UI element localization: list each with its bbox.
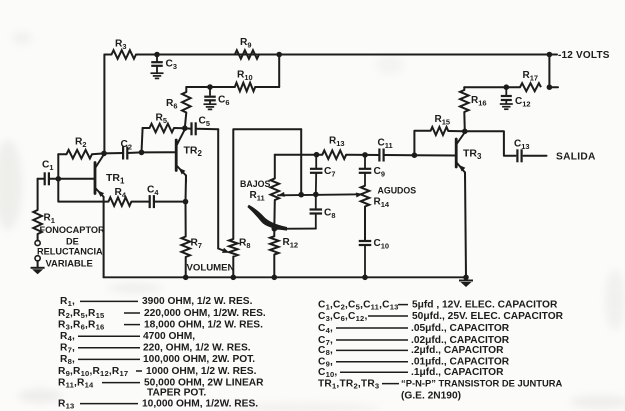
terminal circle lower (35, 256, 40, 261)
label R4 (115, 187, 127, 200)
parts list C7 (318, 335, 510, 347)
node: C12 junction (504, 84, 510, 90)
wire: C1 to TR1 base (49, 178, 95, 180)
node: input junction (56, 176, 62, 182)
wire: R2 right lead (92, 152, 104, 155)
wire: R5 left lead (143, 127, 150, 129)
svg-text:.2μfd., CAPACITOR: .2μfd., CAPACITOR (411, 345, 504, 356)
capacitor C4 (150, 195, 154, 208)
svg-text:220,000 OHM, 1/2W. RES.: 220,000 OHM, 1/2W. RES. (144, 308, 266, 319)
label TR1 (106, 172, 125, 186)
resistor R14 treble pot (361, 186, 370, 207)
node: wiper/drop junction (298, 192, 304, 198)
wire: R15 riser (414, 131, 430, 155)
resistor R1 (33, 210, 42, 234)
label BAJOS (240, 179, 270, 189)
svg-text:FONOCAPTOR: FONOCAPTOR (40, 225, 106, 235)
node: R13/C7 junction (314, 152, 320, 158)
wire: C4 to TR2 emitter node (154, 201, 185, 203)
wire: input drop to R1 (37, 179, 39, 210)
label SALIDA (556, 151, 596, 162)
label R7 (191, 238, 202, 251)
svg-text:50μfd., 25V. ELEC. CAPACITOR: 50μfd., 25V. ELEC. CAPACITOR (412, 311, 564, 322)
wire: terminal to ground (37, 261, 39, 268)
svg-text:R2,R5,R15: R2,R5,R15 (58, 308, 105, 320)
label VARIABLE (46, 258, 93, 269)
resistor R16 with leads (460, 87, 469, 131)
resistor R13 (322, 150, 346, 159)
wire: R11 bottom lead (273, 200, 276, 229)
parts list C1 C2 C5 C11 C13 (318, 299, 558, 311)
node: TR2 emitter / R7 junction (183, 199, 189, 205)
svg-text:AGUDOS: AGUDOS (378, 185, 417, 195)
wiper arrow R14 (356, 192, 363, 197)
wire: R6 top lead (186, 86, 210, 88)
wire: R15 right lead (448, 130, 465, 132)
label R3 (115, 39, 126, 52)
svg-text:BAJOS: BAJOS (240, 179, 270, 189)
parts list R7 (60, 343, 251, 355)
parts list R4 (60, 331, 195, 343)
parts list C3 C6 C12 (318, 311, 564, 323)
ground fonocaptor (31, 268, 45, 275)
wire: R7 bottom lead (185, 257, 187, 277)
label R14 (374, 197, 390, 210)
wire: bass box vertical drop (300, 129, 302, 194)
ground at rail end (459, 281, 473, 288)
resistor R11 bass pot (271, 178, 280, 200)
label R2 (75, 137, 86, 150)
svg-text:R9,R10,R12,R17: R9,R10,R12,R17 (58, 366, 128, 378)
resistor R15 (431, 127, 449, 135)
capacitor C5 with leads (185, 122, 218, 135)
label C5 (199, 116, 210, 129)
parts list TR1 TR2 TR3 (318, 377, 563, 390)
wire: top rail R3 to C3 node (136, 54, 157, 56)
wire: C1 left lead (38, 178, 45, 180)
resistor R4 (108, 197, 131, 206)
capacitor C1 (45, 172, 49, 185)
resistor R3 (112, 50, 137, 59)
parts list C10 (318, 367, 504, 379)
wire: R11 top lead (274, 155, 276, 179)
wire: TR3 emitter drop (465, 173, 466, 278)
transistor TR2 (176, 130, 186, 183)
wire: R2 left riser (57, 154, 59, 179)
resistor R8 volume pot (229, 239, 238, 257)
wire: emitter to R4 (104, 201, 109, 203)
node: TR2 collector junction (182, 125, 188, 131)
label C1 (42, 160, 53, 173)
wire: ground rail (104, 276, 466, 278)
wire: R13 left lead (317, 154, 323, 156)
svg-text:R7,: R7, (60, 343, 75, 355)
svg-text:TR1,TR2,TR3: TR1,TR2,TR3 (318, 378, 379, 390)
wire: R8 top riser (233, 129, 301, 239)
svg-text:C3,C6,C12,: C3,C6,C12, (318, 311, 368, 323)
wire: TR2 emitter drop (185, 176, 188, 202)
svg-text:VARIABLE: VARIABLE (46, 258, 93, 269)
label C2 (121, 139, 132, 152)
svg-text:.02μfd., CAPACITOR: .02μfd., CAPACITOR (411, 335, 510, 346)
resistor R10 (235, 83, 255, 92)
wire: TR2 base lead (142, 151, 177, 153)
parts list R9 R10 R12 R17 (58, 366, 257, 378)
wire: C8 bottom link (274, 228, 316, 230)
wire: R5 left riser (142, 128, 143, 152)
label R15 (435, 114, 451, 127)
resistor R9 (235, 50, 259, 59)
svg-text:5μfd , 12V. ELEC. CAPACITOR: 5μfd , 12V. ELEC. CAPACITOR (412, 299, 558, 310)
wire: C6 node to R10 (210, 86, 235, 88)
parts list C9 (318, 357, 510, 369)
node: R9/R10 junction (276, 52, 282, 58)
node: R17 right junction (547, 84, 558, 90)
label C12 (515, 96, 531, 109)
node: wiper/C7 junction (313, 192, 319, 198)
wire: R11 top to R13 node (275, 154, 317, 156)
resistor R6 with leads (182, 87, 191, 128)
svg-text:1000 OHM, 1/2 W. RES.: 1000 OHM, 1/2 W. RES. (146, 366, 257, 377)
capacitor C11 with leads (365, 149, 414, 162)
label R12 (283, 237, 299, 250)
capacitor C9 (359, 155, 372, 186)
wire: R13 to C9 node (346, 154, 365, 156)
node: TR2 base junction (139, 150, 145, 156)
parts list R1 (60, 296, 253, 308)
label R16 (471, 95, 487, 108)
svg-text:3900 OHM, 1/2 W. RES.: 3900 OHM, 1/2 W. RES. (142, 296, 253, 307)
svg-text:R1,: R1, (60, 296, 75, 308)
svg-text:(G.E. 2N190): (G.E. 2N190) (401, 390, 461, 401)
svg-text:R13: R13 (58, 398, 74, 410)
label R6 (166, 98, 177, 111)
node: -12V terminal (547, 52, 557, 58)
node: R8 ground junction (231, 275, 237, 281)
svg-text:R4,: R4, (60, 331, 75, 343)
svg-text:C8,: C8, (318, 345, 333, 357)
node: C3 junction (154, 52, 160, 58)
wire: C13 to SALIDA (524, 155, 547, 157)
svg-text:C1,C2,C5,C11,C13: C1,C2,C5,C11,C13 (318, 299, 399, 311)
parts list R3 R6 R16 (58, 319, 263, 331)
wire: R16 to C12 rail (464, 86, 506, 88)
svg-text:RELUCTANCIA: RELUCTANCIA (37, 247, 103, 257)
svg-text:DE: DE (66, 236, 79, 246)
wire: R14 to C10 (364, 207, 366, 240)
svg-text:.1μfd., CAPACITOR: .1μfd., CAPACITOR (411, 367, 504, 378)
node: TR1 collector junction (101, 151, 107, 157)
label FONOCAPTOR (40, 225, 106, 235)
parts list GE 2N190 (401, 390, 461, 401)
svg-text:C4,: C4, (318, 323, 333, 335)
label AGUDOS (378, 185, 417, 195)
capacitor C10 (359, 241, 372, 277)
node: R12 top junction (272, 226, 278, 232)
wire: R4 to C4 (131, 201, 149, 203)
wire: R10 right lead (255, 86, 279, 88)
svg-text:R8,: R8, (60, 354, 75, 366)
label R8 (239, 238, 250, 251)
parts list R11 R14 (58, 377, 264, 389)
parts list taper pot (147, 387, 206, 398)
ground for C3 (151, 73, 164, 78)
label C9 (374, 166, 385, 179)
label TR2 (184, 145, 203, 159)
node: C9 junction (362, 152, 368, 158)
transistor TR3 (456, 132, 465, 179)
wire: top rail left segment (104, 54, 111, 56)
node: C11/R15 junction (412, 152, 418, 158)
svg-text:R3,R6,R16: R3,R6,R16 (58, 319, 104, 331)
label DE (66, 236, 79, 246)
label -12 VOLTS (558, 50, 610, 61)
capacitor C3 (151, 55, 163, 73)
svg-text:100,000 OHM, 2W. POT.: 100,000 OHM, 2W. POT. (143, 354, 255, 365)
wire: base-emitter lower link (58, 179, 103, 202)
terminal circle upper (35, 240, 40, 245)
pot wiper arrow R8 (218, 248, 229, 253)
capacitor C13 (517, 149, 521, 162)
label C6 (218, 95, 229, 108)
svg-text:SALIDA: SALIDA (556, 151, 596, 162)
capacitor C6 (204, 87, 216, 104)
label R13 (329, 136, 345, 149)
resistor R2 (67, 150, 93, 159)
label R1 (44, 213, 55, 226)
label R17 (523, 70, 539, 83)
svg-text:220, OHM, 1/2 W. RES.: 220, OHM, 1/2 W. RES. (143, 343, 251, 354)
node: TR3 collector junction (462, 129, 468, 135)
wiper arrow R11 (278, 192, 285, 197)
wire: R7 top lead (185, 202, 187, 237)
label C11 (378, 138, 393, 151)
ground for C6 (204, 104, 217, 109)
ground for C12 (500, 104, 513, 109)
label RELUCTANCIA (37, 247, 103, 257)
capacitor C8 (310, 194, 323, 228)
svg-text:4700 OHM,: 4700 OHM, (143, 331, 195, 342)
label C8 (324, 208, 335, 221)
wire: R1 to terminal (37, 234, 39, 241)
resistor R5 (150, 124, 174, 133)
label C7 (324, 166, 335, 179)
parts list R2 R5 R15 (58, 308, 266, 320)
svg-text:.01μfd., CAPACITOR: .01μfd., CAPACITOR (411, 357, 510, 368)
label C3 (166, 59, 177, 72)
wire: R8 bottom lead (232, 257, 234, 278)
label R9 (240, 37, 251, 50)
node: R12 ground junction (272, 275, 278, 281)
label R5 (156, 113, 167, 126)
svg-text:-12 VOLTS: -12 VOLTS (558, 50, 610, 61)
resistor R12 (270, 229, 279, 277)
capacitor C2 with leads (104, 147, 142, 160)
svg-text:R11,R14: R11,R14 (58, 377, 94, 389)
parts list R8 (60, 354, 255, 366)
wire: wiper line (278, 194, 362, 195)
node: C6 junction (207, 84, 213, 90)
wire: emitter riser to ground rail (103, 202, 105, 278)
wire: C12 to R17 (506, 86, 520, 88)
svg-text:18,000 OHM, 1/2 W. RES.: 18,000 OHM, 1/2 W. RES. (144, 319, 263, 330)
label R11 (250, 190, 265, 203)
label C4 (147, 185, 159, 198)
resistor R17 (520, 83, 541, 91)
pointer swash for R11 (247, 205, 287, 231)
svg-text:10,000 OHM, 1/2W. RES.: 10,000 OHM, 1/2W. RES. (142, 398, 258, 409)
transistor TR1 (95, 154, 104, 201)
svg-text:.05μfd., CAPACITOR: .05μfd., CAPACITOR (411, 323, 510, 334)
wire: C5 drop to wiper (217, 129, 219, 248)
capacitor C12 (501, 87, 512, 103)
capacitor C7 (310, 155, 323, 195)
label C13 (514, 139, 530, 152)
label VOLUMEN (187, 262, 235, 273)
wire: TR3 base lead (414, 154, 456, 156)
node: TR3 ground junction (463, 275, 469, 281)
svg-text:“P-N-P” TRANSISTOR DE JUNTURA: “P-N-P” TRANSISTOR DE JUNTURA (401, 377, 563, 388)
node: R7 ground junction (183, 275, 189, 281)
svg-text:VOLUMEN: VOLUMEN (187, 262, 235, 273)
wire: -12V rail (157, 54, 549, 56)
svg-text:TAPER POT.: TAPER POT. (147, 387, 206, 398)
parts list R13 (58, 398, 258, 410)
parts list C4 (318, 323, 510, 335)
wire: output elbow (465, 131, 516, 156)
label C10 (374, 238, 390, 251)
label TR3 (463, 148, 482, 162)
wire: R5 right lead (174, 127, 185, 129)
label R10 (237, 70, 253, 83)
wire: riser R9/R10 (278, 55, 280, 88)
resistor R7 (181, 237, 190, 258)
node: C10 ground junction (362, 275, 368, 281)
wire: rail drop to R17 (548, 55, 550, 88)
parts list C8 (318, 345, 504, 357)
wire: left riser from top rail corner to TR1 collector node (103, 55, 105, 154)
wire: R2 left lead (58, 153, 66, 155)
